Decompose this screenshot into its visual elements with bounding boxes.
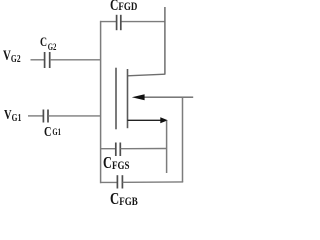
wire C_G1 to rail	[48, 115, 101, 117]
capacitor C_FGD	[117, 15, 121, 30]
wire rail to C_FGS	[101, 148, 116, 150]
transistor gate plate	[115, 68, 117, 130]
transistor channel	[127, 69, 129, 128]
label V_G2	[3, 49, 21, 64]
wire rail to C_FGB	[101, 181, 118, 183]
label C_FGD	[110, 0, 137, 13]
wire V_G1 lead	[28, 115, 43, 117]
bulk arrow into channel	[132, 94, 193, 100]
capacitor C_FGB	[117, 175, 122, 188]
wire C_G2 to rail	[50, 59, 101, 61]
capacitor C_FGS	[116, 143, 121, 157]
wire top-right segment (C_FGD to drain line)	[121, 21, 166, 23]
capacitor C_G2	[45, 52, 50, 68]
label V_G1	[4, 109, 21, 123]
wire top-left segment (FG rail to C_FGD)	[100, 21, 117, 23]
wire floating-gate left rail	[100, 21, 102, 183]
wire V_G2 lead	[31, 59, 45, 61]
wire source terminal vertical	[166, 121, 168, 173]
source wire with arrow	[128, 117, 168, 123]
wire bulk vertical	[182, 97, 184, 182]
capacitor C_G1	[43, 110, 48, 123]
wire C_FGS to source line	[121, 148, 167, 150]
wire C_FGB to bulk line	[123, 181, 184, 183]
label C_FGS	[103, 155, 129, 172]
label C_G2	[40, 35, 56, 48]
wire drain to channel	[128, 74, 165, 76]
label C_G1	[44, 126, 61, 140]
wire drain terminal vertical	[164, 7, 166, 75]
label C_FGB	[110, 190, 138, 207]
